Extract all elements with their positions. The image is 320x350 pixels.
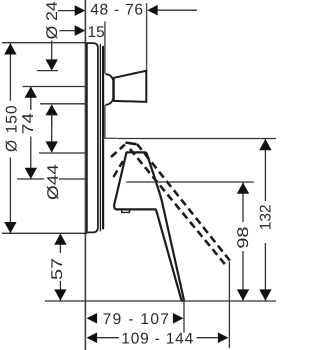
dim 79-107 right arrow bbox=[173, 313, 184, 324]
svg-text:132: 132 bbox=[258, 204, 275, 230]
dim 109-144 right arrow bbox=[218, 332, 229, 343]
dim 74 arrow up bbox=[25, 87, 37, 98]
ext line hub top bbox=[39, 152, 87, 154]
svg-text:Ø44: Ø44 bbox=[45, 164, 62, 200]
dim 57 line top bbox=[59, 234, 61, 254]
ext line lever tip bottom bbox=[45, 300, 276, 302]
dim Ø44 line bbox=[51, 115, 53, 143]
dim 98 arrow up bbox=[237, 183, 249, 194]
dim 57 arrow down bbox=[54, 289, 66, 300]
dim Ø24 tail below bbox=[51, 114, 53, 126]
ext line 98 top bbox=[126, 181, 254, 183]
ext line plate top bbox=[2, 42, 87, 44]
dim Ø24 arrow up at knob bottom bbox=[46, 104, 58, 115]
node sleeve front line lower bbox=[104, 105, 106, 138]
ext line dashed tip vertical bbox=[228, 262, 230, 349]
ext line knob top bbox=[37, 70, 58, 72]
ext line lever tip vertical bbox=[183, 301, 185, 333]
ext line lever axis right (Ø44 leader) bbox=[59, 178, 87, 180]
dim 132 arrow up bbox=[259, 139, 271, 150]
svg-text:79 - 107: 79 - 107 bbox=[103, 311, 171, 328]
svg-text:48 - 76: 48 - 76 bbox=[90, 2, 144, 19]
dim 74 arrow down bbox=[25, 168, 37, 179]
ext line lever axis left bbox=[17, 178, 44, 180]
dim 132 arrow down bbox=[259, 289, 271, 300]
node knob-face extension line bbox=[146, 3, 148, 71]
dim 79-107 left arrow bbox=[87, 313, 98, 324]
dim Ø44 arrow down at hub top bbox=[46, 141, 58, 152]
lever dashed up-position top edge bbox=[126, 143, 137, 145]
knob rosette bbox=[106, 74, 114, 105]
knob bbox=[114, 71, 147, 102]
ext line dashed-lever top bbox=[118, 138, 276, 140]
dim 48-76 left arrow bbox=[58, 10, 76, 12]
dim 109-144 left arrow bbox=[87, 332, 98, 343]
plate rim line A bbox=[99, 44, 101, 231]
ext line knob axis bbox=[23, 86, 88, 88]
dim 48-76 right arrow bbox=[157, 9, 197, 11]
lever dashed hub-left dash bbox=[114, 161, 124, 177]
lever handle solid bbox=[114, 152, 184, 300]
dim 15 left arrow bbox=[60, 30, 76, 32]
dim Ø150 line bbox=[9, 44, 11, 101]
ext line plate bottom bbox=[2, 232, 87, 234]
dim Ø24 arrow down at knob top bbox=[46, 59, 58, 70]
lever dashed up-position left edge bbox=[111, 145, 125, 158]
dim Ø150 arrow down bbox=[4, 222, 16, 233]
dim Ø24 leader line bbox=[51, 41, 53, 62]
lever dashed upper line bbox=[137, 144, 230, 261]
escutcheon plate bbox=[87, 43, 98, 232]
ext line knob bottom bbox=[40, 103, 88, 105]
svg-text:Ø 24: Ø 24 bbox=[44, 1, 61, 39]
lever dashed lower line bbox=[130, 149, 225, 264]
wall bbox=[84, 0, 86, 350]
plate rim line B front face bbox=[102, 47, 104, 229]
dim 74 line bbox=[30, 87, 32, 110]
svg-text:15: 15 bbox=[88, 24, 105, 41]
svg-text:109 - 144: 109 - 144 bbox=[121, 330, 194, 347]
dim 98 arrow down bbox=[237, 289, 249, 300]
dim 132 line bbox=[264, 139, 266, 201]
dim 98 line bbox=[242, 182, 244, 222]
svg-text:Ø 150: Ø 150 bbox=[3, 104, 20, 152]
node sleeve front line upper bbox=[104, 22, 106, 74]
svg-text:98: 98 bbox=[235, 227, 252, 249]
dim Ø150 arrow up bbox=[4, 43, 16, 54]
svg-text:74: 74 bbox=[20, 112, 37, 134]
hub step line bbox=[103, 137, 118, 139]
dim 57 arrow up bbox=[54, 234, 66, 245]
svg-text:57: 57 bbox=[49, 258, 66, 280]
hub notch bbox=[122, 209, 130, 212]
